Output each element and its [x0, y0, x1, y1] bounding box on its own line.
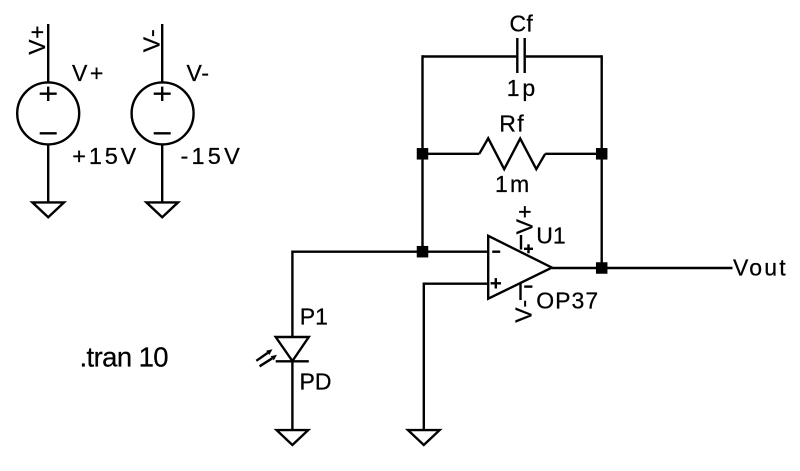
svg-text:V+: V+ [24, 25, 50, 55]
photodiode P1 [256, 337, 309, 366]
svg-text:.tran 10: .tran 10 [80, 342, 169, 373]
op-amp top power pin [521, 235, 533, 253]
wire output [552, 267, 733, 269]
capacitor Cf [517, 38, 524, 73]
svg-text:OP37: OP37 [536, 287, 599, 313]
wire V2 bottom lead [161, 144, 163, 202]
svg-text:V+: V+ [512, 205, 538, 235]
svg-text:Cf: Cf [510, 11, 534, 37]
svg-text:V-: V- [138, 28, 164, 52]
wire photodiode top drop [291, 251, 293, 338]
wire photodiode to ground [291, 361, 293, 430]
svg-text:1m: 1m [495, 171, 531, 197]
op-amp U1 [488, 236, 552, 299]
wire noninverting input [424, 283, 488, 285]
junction (left resistor node) [417, 148, 429, 160]
resistor Rf [479, 138, 545, 169]
wire inverting input [292, 250, 488, 252]
wire V1 bottom lead [47, 144, 49, 202]
svg-text:Vout: Vout [733, 254, 788, 280]
ground (below V1) [32, 202, 64, 217]
svg-text:1p: 1p [507, 75, 538, 101]
voltage source V2 [132, 82, 194, 144]
svg-text:P1: P1 [300, 304, 328, 330]
junction (output node) [596, 262, 608, 274]
svg-text:+15V: +15V [72, 143, 139, 169]
svg-text:V-: V- [511, 299, 537, 323]
svg-text:V-: V- [187, 60, 210, 86]
svg-text:U1: U1 [536, 222, 565, 248]
wire noninverting drop to ground [423, 283, 425, 431]
svg-text:-15V: -15V [181, 143, 243, 169]
ground (photodiode) [277, 430, 309, 445]
wire feedback right vertical [601, 55, 603, 268]
svg-text:PD: PD [300, 369, 332, 395]
wire resistor left lead [423, 153, 480, 155]
wire V1 top lead [47, 24, 49, 83]
svg-text:Rf: Rf [499, 110, 525, 136]
voltage source V1 [17, 82, 79, 144]
ground (below V2) [146, 202, 178, 217]
op-amp bottom power pin [521, 284, 533, 301]
junction (right resistor node) [596, 148, 608, 160]
wire resistor right lead [545, 153, 602, 155]
svg-text:V+: V+ [72, 60, 106, 86]
wire feedback left vertical [421, 55, 423, 251]
junction (inverting node) [417, 246, 429, 258]
wire top feedback left segment [423, 55, 517, 57]
wire top feedback right segment [526, 55, 602, 57]
wire V2 top lead [161, 24, 163, 83]
ground (noninverting input) [408, 430, 440, 445]
